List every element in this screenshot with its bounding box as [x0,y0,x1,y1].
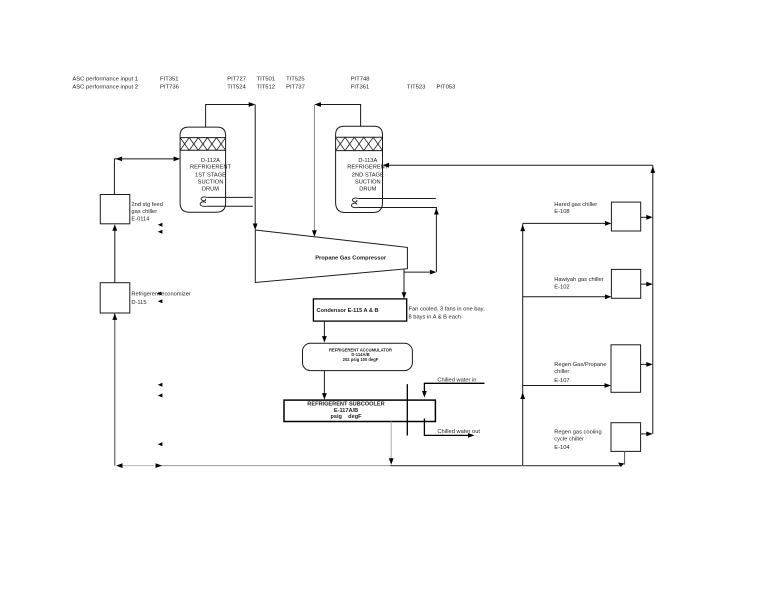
svg-text:TIT512: TIT512 [257,85,276,91]
svg-text:FIT351: FIT351 [160,77,179,83]
svg-text:D-112A: D-112A [201,158,220,164]
svg-text:Regen gas cooling: Regen gas cooling [554,430,601,436]
svg-text:D-113A: D-113A [358,158,377,164]
svg-text:REFRIGERENT: REFRIGERENT [190,165,231,171]
svg-text:Hawiyah gas chiller: Hawiyah gas chiller [554,277,603,283]
svg-text:gas chiller: gas chiller [131,209,157,215]
svg-text:chiller: chiller [554,369,569,375]
svg-text:Fan cooled. 3 fans in one bay.: Fan cooled. 3 fans in one bay. [409,307,486,313]
svg-text:psig degF: psig degF [330,414,362,420]
svg-text:cycle chiller: cycle chiller [554,436,584,442]
svg-text:Chilled water out: Chilled water out [437,429,480,435]
svg-text:E-0114: E-0114 [131,216,150,222]
svg-text:Condensor E-115 A & B: Condensor E-115 A & B [317,308,379,314]
svg-text:2nd stg feed: 2nd stg feed [131,202,162,208]
svg-text:Hared gas chiller: Hared gas chiller [554,202,597,208]
svg-text:8 bays in A & B each: 8 bays in A & B each [409,315,461,321]
svg-text:ASC performance input 1: ASC performance input 1 [72,77,138,83]
svg-text:PIT736: PIT736 [160,85,179,91]
svg-text:PIT748: PIT748 [351,77,370,83]
svg-text:Regen Gas/Propane: Regen Gas/Propane [554,362,606,368]
svg-text:SUCTION: SUCTION [198,179,224,185]
svg-text:TIT525: TIT525 [286,77,305,83]
svg-text:E-108: E-108 [554,209,569,215]
svg-text:TIT524: TIT524 [227,85,246,91]
svg-text:E-104: E-104 [554,445,570,451]
svg-text:PIT727: PIT727 [227,77,246,83]
svg-text:E-117A/B: E-117A/B [334,408,358,414]
svg-text:PIT053: PIT053 [437,85,456,91]
svg-text:SUCTION: SUCTION [355,179,381,185]
svg-text:E-102: E-102 [554,285,569,291]
svg-text:1ST STAGE: 1ST STAGE [195,172,226,178]
svg-text:2ND STAGE: 2ND STAGE [352,172,384,178]
svg-text:PIT737: PIT737 [286,85,305,91]
svg-text:Propane Gas Compressor: Propane Gas Compressor [315,255,387,261]
svg-text:FIT361: FIT361 [351,85,370,91]
svg-text:TIT501: TIT501 [257,77,276,83]
svg-text:TIT523: TIT523 [407,85,426,91]
svg-text:202 psig 100 degF: 202 psig 100 degF [343,357,379,362]
svg-text:DRUM: DRUM [202,187,219,193]
svg-text:ASC performance input 2: ASC performance input 2 [72,85,138,91]
svg-text:E-107: E-107 [554,378,569,384]
svg-text:D-115: D-115 [131,300,146,306]
svg-text:DRUM: DRUM [359,187,376,193]
svg-text:REFRIGERENT SUBCOOLER: REFRIGERENT SUBCOOLER [307,401,384,407]
svg-text:REFRIGERENT: REFRIGERENT [347,165,388,171]
